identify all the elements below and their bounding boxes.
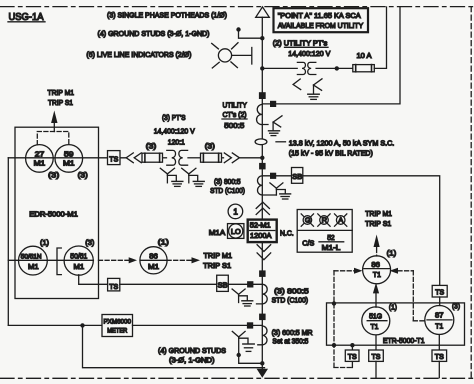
bus termination ground arrow <box>257 369 268 378</box>
svg-text:TRIP S1: TRIP S1 <box>48 98 73 107</box>
svg-text:TS: TS <box>109 154 118 163</box>
relay 50/51 phase overcurrent M1 <box>64 246 93 275</box>
wire chevrons to bus <box>240 157 262 159</box>
wire between fuse1 and PT <box>163 157 167 159</box>
ground studs tap wire <box>239 30 263 39</box>
label C/S 52/M1-L <box>302 233 343 252</box>
relay 50/51N ground overcurrent M1 <box>19 246 48 275</box>
svg-text:TS: TS <box>348 352 357 361</box>
svg-text:M1-L: M1-L <box>322 243 341 252</box>
wire 87 to TS below <box>438 335 440 351</box>
svg-text:(2) UTILITY PT's: (2) UTILITY PT's <box>273 38 328 47</box>
wire meter to 600:5 CT <box>133 324 263 326</box>
wire PT secondary to fuse <box>316 67 353 69</box>
USG-1A enclosure boundary top dash-dot line <box>0 6 474 8</box>
svg-text:C/S: C/S <box>302 238 314 247</box>
meter PXM6000 <box>102 315 133 337</box>
drawout chevrons PT right <box>224 153 239 163</box>
removable ground link at utility CT <box>269 116 283 136</box>
wire bus to utility PT primary <box>262 67 297 69</box>
lockout relay 86 M1 <box>140 247 167 274</box>
shorting block SB feeder <box>217 275 229 291</box>
junction dot CT neutral <box>237 353 241 357</box>
wire first bus CT to SB <box>262 175 291 177</box>
live line indicator lamp <box>212 43 252 68</box>
cable termination square on bus <box>259 92 266 99</box>
svg-text:TS: TS <box>435 288 444 297</box>
dashed trip arrow 86 M1 to trip label <box>167 257 200 263</box>
label TRIP M1 TRIP S1 upper <box>48 88 75 107</box>
svg-text:(3) 800:5: (3) 800:5 <box>274 287 309 296</box>
wire 51G TS tap <box>351 345 353 350</box>
indicating lamp G <box>301 214 313 226</box>
bus rating node marker <box>255 139 267 145</box>
junction node on bus ground point <box>260 361 264 365</box>
bus CT 800:5 upper <box>257 176 276 195</box>
svg-text:52: 52 <box>327 233 335 242</box>
junction node on bus at PT tap <box>260 156 264 160</box>
wire SB to bus CT <box>228 283 262 285</box>
svg-text:TRIP M1: TRIP M1 <box>204 251 233 260</box>
junction dot trip wire at box top <box>332 301 336 305</box>
svg-text:CT's (2): CT's (2) <box>223 110 247 119</box>
svg-text:M1: M1 <box>63 158 75 167</box>
wire 50/51 to TS <box>79 275 108 285</box>
label TRIP M1 TRIP S1 mid <box>203 251 232 270</box>
svg-text:A: A <box>338 216 343 225</box>
bus CT 600:5 <box>258 326 267 345</box>
svg-text:TS: TS <box>372 352 381 361</box>
label (4) GROUND STUDS bottom <box>158 346 226 365</box>
svg-text:AVAILABLE FROM UTILITY: AVAILABLE FROM UTILITY <box>278 21 364 30</box>
trip arrow from 27/59 relays <box>51 111 57 132</box>
svg-text:87: 87 <box>435 311 444 320</box>
wire TS to boundary below 87 <box>438 361 440 377</box>
wye ground at lower 800:5 CT <box>232 289 253 306</box>
wire between PT and fuse2 <box>188 157 201 159</box>
label (3) 800:5 STD (C100) right <box>272 287 309 305</box>
test switch TS below 51G <box>369 350 384 361</box>
metering PT transformer 120:1 <box>167 150 188 165</box>
label TRIP M1 TRIP S1 right <box>365 209 392 228</box>
removable ground link below utility PT <box>308 79 322 100</box>
leader line to bus rating note <box>276 141 286 143</box>
indicating lights and control switch box <box>297 210 352 253</box>
svg-text:(3): (3) <box>78 171 89 180</box>
svg-text:STD (C100): STD (C100) <box>210 186 245 195</box>
wire utility CT to boundary <box>262 7 400 104</box>
main 13.8kV bus wire (upper section) <box>261 17 263 218</box>
svg-text:M1: M1 <box>74 262 85 271</box>
wire CT neutral to bus ground point <box>239 355 263 363</box>
svg-text:M1: M1 <box>34 158 46 167</box>
junction node on bus at ground stud tap <box>260 36 264 40</box>
junction node on bus at utility PT tap <box>260 66 264 70</box>
shorting block SB differential <box>292 168 303 184</box>
wire left riser to PXM meter <box>8 324 102 326</box>
enclosure boundary right dashed line <box>470 7 472 379</box>
svg-text:500:5: 500:5 <box>224 121 244 130</box>
trip arrow from 86 T1 <box>374 235 380 257</box>
vertical wire left riser <box>7 158 9 326</box>
svg-text:(3) PT'S: (3) PT'S <box>162 113 186 122</box>
indicating lamp A <box>335 214 347 226</box>
svg-text:(6) LIVE LINE INDICATORS (2/Ø): (6) LIVE LINE INDICATORS (2/Ø) <box>86 50 191 59</box>
svg-text:(3): (3) <box>452 302 460 311</box>
svg-text:59: 59 <box>64 149 74 158</box>
cable mark square on bus above CT <box>259 163 266 170</box>
fuse (3) PT secondary <box>201 153 222 162</box>
svg-text:PXM6000: PXM6000 <box>104 319 132 326</box>
utility CT 500:5 winding <box>257 104 268 124</box>
position circle 1 <box>228 204 243 219</box>
ground bus wire from meter tap <box>83 325 265 367</box>
svg-text:(3) 800:5: (3) 800:5 <box>214 177 241 186</box>
test switch TS above 87 <box>432 285 447 297</box>
svg-text:(3): (3) <box>85 238 94 247</box>
cable termination square on utility CT wire <box>270 101 276 107</box>
fuse 10A utility PT secondary <box>353 65 375 72</box>
svg-text:M1A: M1A <box>209 228 226 237</box>
breaker 52-M1 1200A <box>248 220 277 243</box>
wire TS to 87 <box>439 297 441 306</box>
test switch TS lower left <box>345 350 359 361</box>
label (2) UTILITY PT's <box>273 38 328 47</box>
wye ground at upper 800:5 CT <box>270 183 291 199</box>
svg-text:UTILITY: UTILITY <box>223 101 247 110</box>
relay ETR-5000-T1 enclosure box <box>327 303 465 345</box>
svg-text:86: 86 <box>149 251 158 260</box>
svg-text:52-M1: 52-M1 <box>250 220 271 229</box>
svg-text:ETR-5000-T1: ETR-5000-T1 <box>383 336 425 345</box>
wire metering PT chain <box>8 157 126 159</box>
ground stud connection dot <box>236 27 240 31</box>
junction dot TS tap at box bottom <box>350 343 354 347</box>
pothead termination triangle <box>256 7 270 17</box>
relay 51G ground time overcurrent T1 <box>362 307 390 335</box>
svg-text:"POINT A" 11.65 KA SCA: "POINT A" 11.65 KA SCA <box>278 11 362 20</box>
breaker drawout chevrons upper <box>256 202 269 214</box>
wire fuse to utility boundary <box>374 7 386 68</box>
svg-text:SB: SB <box>292 172 302 181</box>
wire CT secondary through 50/51 relays <box>8 259 93 261</box>
svg-text:T1: T1 <box>371 322 379 331</box>
svg-text:METER: METER <box>107 328 127 335</box>
svg-text:(3): (3) <box>48 171 60 180</box>
junction node meter ground tap <box>80 323 84 327</box>
indicating lamp R <box>318 214 330 226</box>
svg-text:(4) GROUND STUDS (3-Ø, 1-GND): (4) GROUND STUDS (3-Ø, 1-GND) <box>98 29 210 38</box>
svg-text:(4) GROUND STUDS: (4) GROUND STUDS <box>158 346 226 355</box>
wye ground metering PT secondary 1 <box>160 168 183 186</box>
svg-text:Set at 350:5: Set at 350:5 <box>272 337 308 346</box>
svg-text:STD (C100): STD (C100) <box>272 296 309 305</box>
label USG-1A <box>8 12 45 23</box>
svg-text:(1): (1) <box>40 238 49 247</box>
svg-text:27: 27 <box>35 149 45 158</box>
svg-text:TRIP M1: TRIP M1 <box>365 209 392 218</box>
relay 59 overvoltage M1 <box>55 145 83 173</box>
cable mark square on bus below breaker <box>259 270 266 277</box>
svg-text:M1: M1 <box>148 262 159 271</box>
svg-text:(3): (3) <box>146 141 157 150</box>
relay 87 differential T1 <box>425 306 454 335</box>
svg-text:SB: SB <box>218 280 228 289</box>
svg-text:TRIP S1: TRIP S1 <box>203 261 231 270</box>
svg-text:LO: LO <box>231 227 241 236</box>
cable mark square on CT wire <box>270 173 276 179</box>
svg-text:(3-Ø, 1-GND): (3-Ø, 1-GND) <box>169 356 215 365</box>
wye ground at 600:5 CT <box>232 331 254 355</box>
breaker drawout chevrons lower <box>257 245 271 260</box>
svg-text:N.C.: N.C. <box>280 228 294 237</box>
drawout chevrons PT left <box>126 153 141 163</box>
junction dot trip wire at box bottom <box>332 343 336 347</box>
svg-text:T1: T1 <box>373 270 381 279</box>
relay 27 undervoltage M1 <box>26 145 54 173</box>
svg-text:T1: T1 <box>435 322 443 331</box>
svg-text:(1): (1) <box>389 303 397 312</box>
label (3) 800:5 STD (C100) left <box>210 177 245 195</box>
svg-text:EDR-5000-M1: EDR-5000-M1 <box>29 209 78 218</box>
relay EDR-5000-M1 enclosure box <box>15 127 99 298</box>
bus CT 800:5 lower <box>257 284 268 304</box>
wire 51G to TS below <box>375 335 377 350</box>
dashed trip wire 50/51 to 86 <box>99 257 138 263</box>
note 13.8 kV bus rating <box>289 139 395 158</box>
svg-text:86: 86 <box>371 260 380 269</box>
wye ground metering PT secondary 2 <box>182 168 205 186</box>
label UTILITY CT's (2) 500:5 <box>222 101 247 130</box>
main bus wire (lower section) <box>261 243 263 370</box>
test switch TS feeder <box>108 278 120 291</box>
label (3) 600:5 MR Set at 350:5 <box>272 328 313 346</box>
utility PT transformer 14400:120V <box>297 62 315 74</box>
svg-text:14,400:120 V: 14,400:120 V <box>154 127 196 136</box>
svg-text:(1): (1) <box>158 238 170 247</box>
wire fuse2 to chevrons <box>222 157 224 159</box>
cable mark square on meter wire <box>247 322 253 328</box>
svg-text:M1: M1 <box>28 262 39 271</box>
wire SB to TS above 87 <box>303 176 440 286</box>
svg-text:50/51: 50/51 <box>70 252 87 261</box>
dashed trip wire left into 86 T1 <box>334 268 363 368</box>
wire TS to boundary below 51G <box>375 361 377 377</box>
cable mark square on SB wire <box>247 281 253 287</box>
cable mark square on bus above 600:5 CT <box>259 314 266 321</box>
svg-text:TRIP S1: TRIP S1 <box>365 219 391 228</box>
svg-text:120:1: 120:1 <box>168 137 185 146</box>
svg-text:G: G <box>305 216 311 225</box>
svg-text:R: R <box>322 216 328 225</box>
lockout relay 86 T1 <box>363 256 391 284</box>
svg-text:TS: TS <box>109 282 118 291</box>
drawout chevron below utility PT <box>293 79 301 90</box>
svg-text:(3): (3) <box>205 142 216 151</box>
test switch TS below 87 <box>432 350 447 361</box>
junction node PT secondary <box>335 66 339 70</box>
fuse (3) PT primary <box>142 153 163 162</box>
lockout LO tag <box>228 224 244 239</box>
svg-text:1200A: 1200A <box>250 231 272 240</box>
svg-text:51G: 51G <box>369 312 382 321</box>
enclosure boundary bottom dash-dot line <box>0 377 474 379</box>
note box POINT A available fault current <box>274 8 369 32</box>
svg-text:TS: TS <box>435 352 444 361</box>
svg-text:(3) SINGLE PHASE POTHEADS (1/Ø: (3) SINGLE PHASE POTHEADS (1/Ø) <box>107 11 227 20</box>
svg-text:(15 kV - 95 kV BIL RATED): (15 kV - 95 kV BIL RATED) <box>289 149 373 158</box>
CT polarity bracket <box>57 248 61 275</box>
trip arrow 51G to 86 T1 <box>373 283 379 308</box>
svg-text:(1): (1) <box>387 249 397 258</box>
dashed trip wiring to 27/59 <box>37 132 69 145</box>
test switch TS metering PT <box>108 151 121 165</box>
dashed trip wire right into 86 T1 <box>390 268 425 321</box>
svg-text:10 A: 10 A <box>357 51 373 60</box>
svg-text:TRIP M1: TRIP M1 <box>48 88 75 97</box>
svg-text:13.8 kV, 1200 A, 50 kA SYM S.C: 13.8 kV, 1200 A, 50 kA SYM S.C. <box>289 139 395 148</box>
svg-text:1: 1 <box>233 208 238 217</box>
wire TS to SB <box>120 283 217 285</box>
svg-text:50/51N: 50/51N <box>21 254 42 261</box>
svg-text:14,400:120 V: 14,400:120 V <box>288 49 331 58</box>
